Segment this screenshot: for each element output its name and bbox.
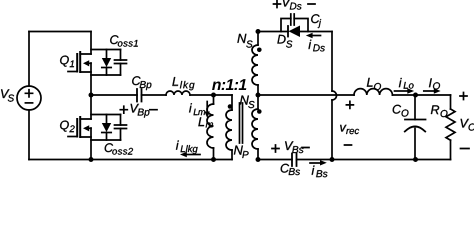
transformer primary NP — [231, 95, 233, 160]
wire: CO node to RO corner — [416, 94, 451, 96]
label Cj — [311, 14, 321, 28]
transformer secondary NS lower — [257, 95, 259, 160]
label LO — [367, 78, 381, 90]
capacitor CO — [414, 95, 416, 120]
wire: LO to CO node — [392, 94, 415, 96]
transistor Q2 — [68, 136, 77, 138]
resistor RO — [450, 95, 452, 109]
label n:1:1 — [212, 79, 246, 90]
label VS — [1, 89, 14, 101]
node: half-bridge midpoint — [89, 93, 94, 98]
label CO — [393, 105, 409, 117]
label iBs with right arrow — [310, 162, 321, 164]
wire: top rail — [29, 31, 91, 33]
body diode of Q2 — [91, 114, 121, 116]
inductor Lm — [213, 95, 215, 160]
node: NS lower polarity dot — [257, 109, 262, 114]
wire: midpoint to CBp — [91, 94, 137, 96]
wire: center tap to output — [258, 94, 354, 96]
label Q2 — [60, 121, 75, 132]
label iLlkg with left arrow — [176, 140, 198, 154]
label Coss1 — [110, 35, 138, 46]
node: CO bottom junction — [413, 157, 418, 162]
wire: CBp to Llkg — [142, 94, 167, 96]
body diode of Q1 — [91, 49, 121, 51]
transformer secondary NS upper — [257, 32, 259, 96]
label NS upper — [237, 34, 252, 48]
diode DS — [287, 26, 289, 37]
wire: bottom rail primary — [29, 159, 232, 161]
node: Lm bottom junction — [211, 157, 216, 162]
label +VBs- — [285, 141, 303, 153]
label CBp — [132, 76, 151, 90]
node: Lm top junction — [211, 93, 216, 98]
label +VDs- — [283, 0, 302, 10]
node: CO top junction — [413, 93, 418, 98]
label iDs with left arrow — [312, 35, 321, 37]
wire: Llkg to transformer — [190, 94, 232, 96]
label DS — [277, 35, 292, 48]
wire: left rail lower (Vs bottom) — [28, 110, 30, 160]
node: NS upper polarity dot — [257, 48, 262, 53]
wire: NS top to DS — [258, 31, 288, 33]
label IO with right arrow — [429, 78, 440, 89]
wire: DS branch down with hop over output wire — [331, 32, 333, 92]
transistor Q1 — [68, 71, 77, 73]
wire: CBs to DS branch node — [297, 159, 333, 161]
wire: NS lower bottom to CBs — [258, 159, 292, 161]
label iLo with right arrow — [399, 78, 414, 89]
label Llkg — [172, 77, 194, 90]
source VS — [17, 86, 41, 110]
label iLm with down arrow — [189, 103, 205, 115]
capacitor Coss1 — [120, 50, 122, 76]
node: NP polarity dot — [228, 104, 233, 109]
label NS lower — [240, 96, 255, 109]
wire: DS to right corner — [300, 31, 332, 33]
capacitor Coss2 — [120, 115, 122, 141]
label Coss2 — [105, 143, 133, 154]
label NP — [234, 146, 249, 158]
transformer core — [240, 103, 243, 143]
node: NS lower bottom junction — [256, 157, 261, 162]
label +VBp- — [131, 104, 150, 118]
inductor Llkg — [166, 91, 190, 95]
label CBs — [281, 164, 300, 175]
inductor LO — [354, 89, 392, 95]
wire: left rail upper (Vs top) — [28, 32, 30, 87]
label Lm — [198, 117, 213, 127]
capacitor CBp — [137, 89, 142, 102]
label VO — [461, 119, 474, 131]
capacitor CBs — [292, 154, 297, 167]
node: Q2 source on bottom rail — [89, 157, 94, 162]
label RO — [431, 105, 448, 117]
node: DS branch meets bottom rail — [330, 157, 335, 162]
wire: bottom rail secondary — [332, 159, 451, 161]
label Q1 — [60, 56, 74, 67]
node: center tap junction — [256, 93, 261, 98]
capacitor Cj parallel branch — [281, 19, 308, 32]
node: NS top corner — [256, 29, 261, 34]
label vrec — [340, 125, 359, 134]
